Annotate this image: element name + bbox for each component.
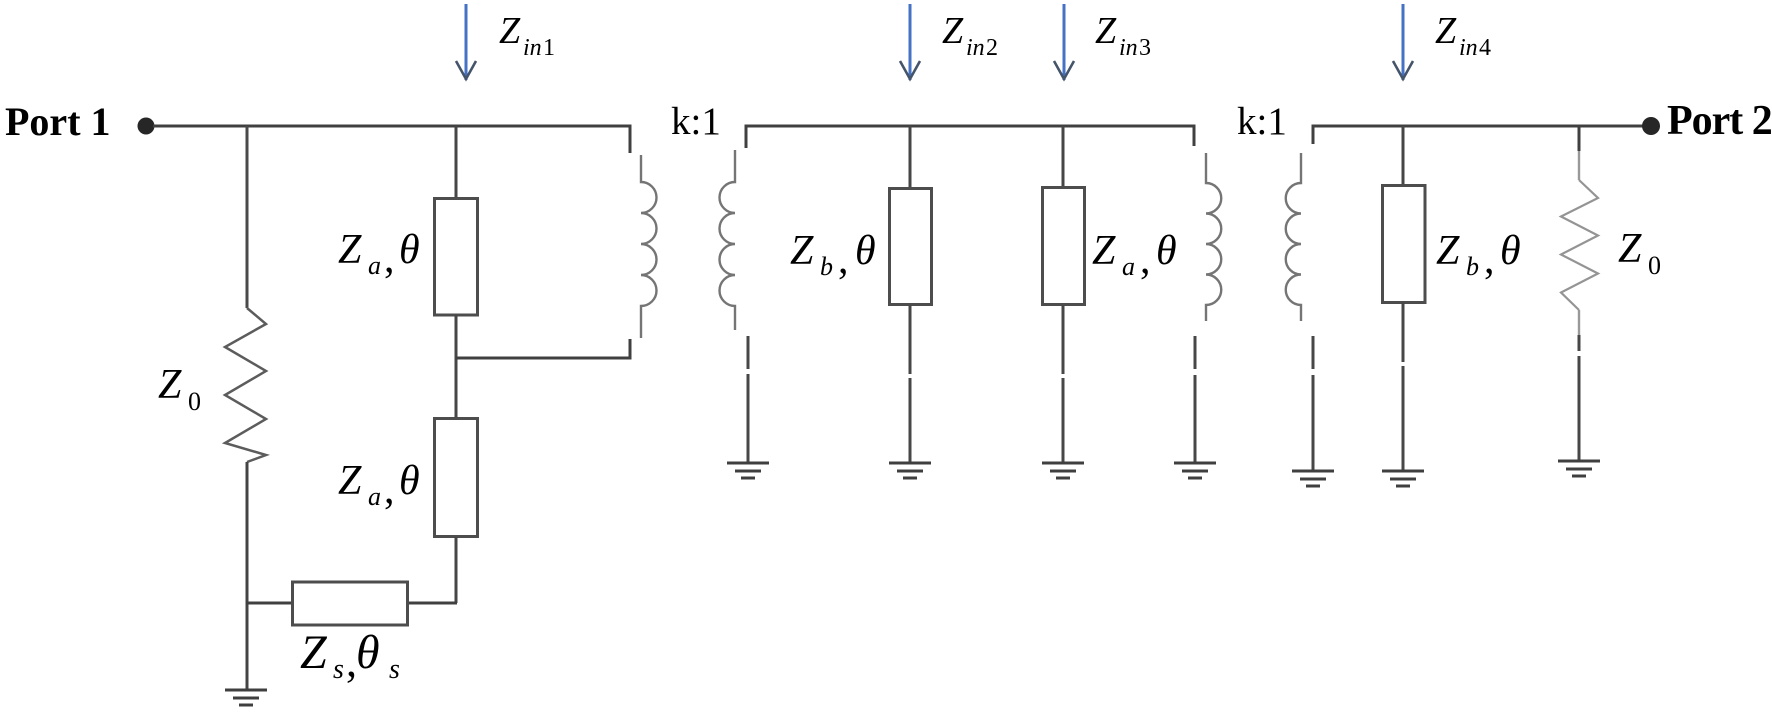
wire — [1578, 310, 1580, 335]
svg-text:θ: θ — [399, 458, 420, 504]
wire — [1578, 335, 1581, 460]
svg-text:s: s — [389, 654, 400, 685]
label Port 1 — [5, 99, 111, 144]
port 2 terminal dot — [1642, 117, 1660, 135]
svg-text:Z: Z — [1618, 226, 1642, 272]
transformer T2 secondary coil — [1286, 153, 1301, 321]
svg-text:θ: θ — [356, 626, 380, 679]
arrow Zin4 — [1393, 4, 1413, 80]
label Zin3 — [1095, 10, 1151, 61]
label Port 2 — [1667, 98, 1772, 144]
wire — [747, 336, 750, 462]
arrow Zin1 — [456, 4, 476, 80]
label Zb,theta right — [1436, 228, 1521, 283]
wire — [455, 315, 458, 418]
svg-text:,: , — [1140, 237, 1151, 283]
label Z0 left — [158, 362, 201, 416]
svg-text:Z: Z — [338, 227, 362, 273]
ground — [1174, 463, 1216, 478]
wire — [909, 305, 912, 462]
label Zs,theta-s — [300, 626, 400, 686]
svg-text:Z: Z — [158, 362, 182, 408]
wire — [153, 126, 630, 153]
label k:1 T2 — [1237, 100, 1287, 143]
svg-text:Z: Z — [1092, 228, 1116, 274]
svg-text:θ: θ — [399, 227, 420, 273]
ground — [1042, 463, 1084, 478]
svg-text:Z: Z — [1435, 10, 1457, 52]
svg-text:b: b — [1466, 252, 1479, 281]
label Z0 right — [1618, 226, 1661, 280]
arrow Zin2 — [900, 4, 920, 80]
svg-text:4: 4 — [1479, 35, 1491, 61]
svg-text:a: a — [1122, 252, 1135, 281]
label k:1 T1 — [671, 100, 721, 143]
svg-text:s: s — [333, 654, 344, 685]
svg-text:θ: θ — [1156, 228, 1177, 274]
svg-text:in: in — [1119, 35, 1138, 61]
ground — [889, 463, 931, 478]
svg-text:Z: Z — [942, 10, 964, 52]
svg-text:,: , — [838, 237, 849, 283]
transmission line Za lower — [435, 419, 478, 537]
svg-text:,: , — [1484, 237, 1495, 283]
svg-text:0: 0 — [1648, 251, 1661, 280]
svg-text:Port 2: Port 2 — [1667, 98, 1772, 144]
svg-text:3: 3 — [1139, 35, 1151, 61]
ground — [1382, 471, 1424, 486]
svg-text:in: in — [966, 35, 985, 61]
svg-text:1: 1 — [543, 35, 555, 61]
wire — [1402, 126, 1405, 185]
wire — [246, 602, 292, 605]
svg-text:b: b — [820, 252, 833, 281]
resistor Z0 right — [1561, 180, 1598, 310]
transmission line Za upper — [435, 199, 478, 316]
svg-text:in: in — [523, 35, 542, 61]
wire — [909, 126, 912, 188]
svg-text:Z: Z — [790, 228, 814, 274]
transformer T1 secondary coil — [720, 150, 736, 330]
wire — [1402, 302, 1405, 470]
svg-text:k:1: k:1 — [671, 100, 721, 143]
svg-text:0: 0 — [188, 387, 201, 416]
svg-text:in: in — [1459, 35, 1478, 61]
wire — [408, 602, 457, 605]
svg-text:Z: Z — [338, 458, 362, 504]
arrow Zin3 — [1054, 4, 1074, 80]
port 1 terminal dot — [138, 118, 155, 135]
wire — [1194, 336, 1197, 462]
ground — [225, 690, 267, 705]
wire — [246, 462, 249, 689]
svg-text:k:1: k:1 — [1237, 100, 1287, 143]
label Za,theta middle — [1092, 228, 1177, 283]
label Zb,theta middle — [790, 228, 876, 283]
ground — [727, 463, 769, 478]
transmission line Zb right — [1383, 186, 1426, 303]
ground — [1292, 471, 1334, 486]
svg-text:,: , — [384, 467, 395, 513]
svg-text:a: a — [368, 482, 381, 511]
svg-text:Z: Z — [499, 10, 521, 52]
svg-text:Z: Z — [1095, 10, 1117, 52]
wire — [1578, 151, 1580, 180]
transformer T1 primary coil — [641, 155, 657, 338]
svg-text:θ: θ — [855, 228, 876, 274]
transmission line Zb middle — [890, 189, 932, 305]
svg-text:,: , — [384, 236, 395, 282]
wire — [1312, 336, 1315, 470]
wire — [455, 126, 458, 198]
svg-text:θ: θ — [1500, 228, 1521, 274]
svg-text:2: 2 — [986, 35, 998, 61]
label Za,theta lower — [338, 458, 420, 513]
svg-text:a: a — [368, 251, 381, 280]
wire — [455, 537, 458, 603]
wire — [1313, 126, 1651, 144]
svg-text:Port 1: Port 1 — [5, 99, 111, 144]
resistor Z0 left — [225, 308, 266, 462]
wire — [1062, 126, 1065, 187]
wire — [456, 339, 630, 358]
wire — [1578, 126, 1581, 151]
ground — [1558, 461, 1600, 476]
wire — [1062, 305, 1065, 462]
transformer T2 primary coil — [1206, 153, 1221, 321]
svg-text:Z: Z — [300, 626, 328, 679]
label Zin2 — [942, 10, 998, 61]
label Zin1 — [499, 10, 555, 61]
wire — [746, 126, 1194, 148]
transmission line Za middle — [1043, 188, 1085, 305]
label Za,theta upper — [338, 227, 420, 282]
svg-text:Z: Z — [1436, 228, 1460, 274]
wire — [246, 126, 249, 308]
stub Zs — [293, 582, 408, 625]
label Zin4 — [1435, 10, 1491, 61]
